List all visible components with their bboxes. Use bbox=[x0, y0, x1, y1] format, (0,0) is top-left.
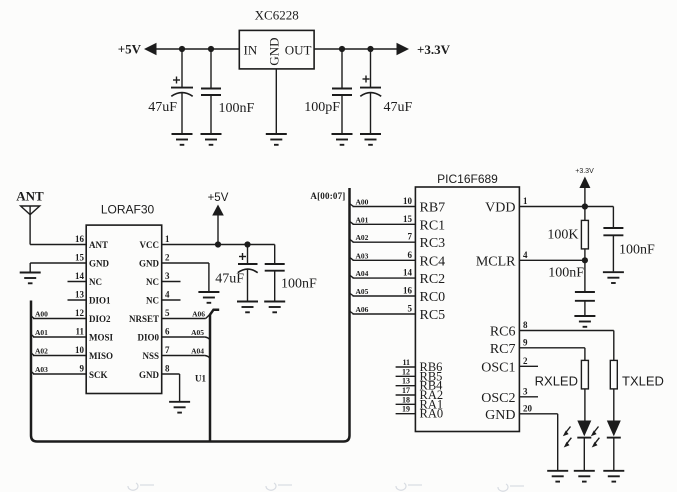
ground under C2 bbox=[201, 134, 222, 145]
net +3.3V arrow at PIC bbox=[579, 177, 590, 189]
svg-text:RXLED: RXLED bbox=[535, 374, 578, 389]
svg-text:7: 7 bbox=[165, 345, 170, 355]
svg-text:15: 15 bbox=[403, 214, 413, 224]
svg-text:RC7: RC7 bbox=[490, 342, 516, 357]
U3 pin 20 GND wire bbox=[485, 403, 558, 470]
U1 pin 11 MOSI / node A01 bbox=[31, 327, 114, 343]
svg-text:NC: NC bbox=[89, 277, 102, 287]
svg-text:47uF: 47uF bbox=[148, 100, 177, 115]
U3 pin 12 RB5 bbox=[396, 367, 443, 383]
U1 pin 14 NC bbox=[68, 271, 103, 287]
ground under U2 bbox=[266, 134, 287, 145]
U3 pin 1 VDD / wire to +3.3V bbox=[485, 196, 613, 216]
capacitor C3 100pF bbox=[304, 49, 352, 134]
svg-text:100nF: 100nF bbox=[281, 277, 317, 292]
svg-text:13: 13 bbox=[402, 377, 410, 386]
svg-text:RB7: RB7 bbox=[420, 201, 446, 216]
U1 pin 13 DIO1 bbox=[68, 290, 112, 306]
capacitor C2 100nF bbox=[201, 49, 255, 134]
U3 pin 10 RB7 / node A00 bbox=[350, 196, 446, 216]
svg-text:16: 16 bbox=[75, 234, 85, 244]
U1 pin 16 ANT bbox=[75, 234, 108, 250]
svg-text:100K: 100K bbox=[547, 228, 578, 243]
wire antenna to U1 pin 16 bbox=[30, 244, 86, 246]
svg-text:13: 13 bbox=[75, 290, 85, 300]
svg-text:18: 18 bbox=[402, 395, 410, 404]
ground under D1 bbox=[574, 471, 595, 482]
svg-text:2: 2 bbox=[523, 356, 528, 366]
U3 pin 19 RA0 bbox=[396, 405, 444, 421]
U3 pin 16 RC0 / node A05 bbox=[350, 286, 446, 306]
svg-text:IN: IN bbox=[244, 43, 258, 58]
capacitor C8 100nF on VDD bbox=[603, 207, 655, 272]
svg-text:A[00:07]: A[00:07] bbox=[310, 191, 345, 201]
svg-text:MOSI: MOSI bbox=[89, 333, 114, 343]
svg-text:NC: NC bbox=[146, 296, 159, 306]
wire +5V rail to IN bbox=[155, 48, 239, 50]
svg-text:A04: A04 bbox=[191, 347, 204, 356]
svg-text:XC6228: XC6228 bbox=[255, 8, 299, 23]
junction dot at C3 tap bbox=[339, 46, 345, 52]
svg-text:A03: A03 bbox=[356, 251, 369, 260]
U1 pin 7 NSS / node A04 bbox=[142, 345, 210, 361]
faint watermark remnants bbox=[128, 483, 524, 491]
wire +3.3V arrow stem bbox=[584, 188, 586, 207]
U3 pin 3 OSC2 stub bbox=[481, 386, 538, 406]
net +5V arrow above U1 bbox=[212, 205, 224, 216]
svg-text:19: 19 bbox=[402, 405, 410, 414]
wire U2 GND pin to ground bbox=[275, 69, 277, 134]
svg-text:A03: A03 bbox=[35, 365, 48, 374]
svg-text:MISO: MISO bbox=[89, 351, 113, 361]
U1 pin 2 GND bbox=[139, 253, 209, 292]
U3 pin 5 RC5 / node A06 bbox=[350, 304, 446, 324]
capacitor C5 47uF electrolytic bbox=[215, 245, 257, 301]
svg-text:RC2: RC2 bbox=[420, 272, 446, 287]
svg-text:15: 15 bbox=[75, 253, 85, 263]
U3 pin 7 RC3 / node A02 bbox=[350, 232, 446, 252]
svg-text:12: 12 bbox=[75, 308, 85, 318]
svg-text:RC4: RC4 bbox=[420, 254, 446, 269]
U1 pin 5 NRSET / node A06 bbox=[129, 308, 210, 324]
ground at U1 pin 15 bbox=[20, 273, 41, 284]
svg-text:9: 9 bbox=[523, 337, 528, 347]
svg-text:GND: GND bbox=[139, 370, 160, 380]
resistor R1 100K bbox=[547, 207, 588, 261]
svg-text:U1: U1 bbox=[195, 374, 206, 384]
ground under C7 bbox=[574, 316, 595, 327]
svg-text:47uF: 47uF bbox=[215, 272, 244, 287]
net +3.3V arrow bbox=[397, 43, 410, 55]
svg-text:ANT: ANT bbox=[16, 189, 44, 204]
svg-text:4: 4 bbox=[165, 290, 170, 300]
svg-text:+3.3V: +3.3V bbox=[417, 42, 451, 57]
wire +5V arrow stem bbox=[217, 216, 219, 245]
svg-text:47uF: 47uF bbox=[384, 100, 413, 115]
svg-text:100nF: 100nF bbox=[619, 243, 655, 258]
U1 pin 9 SCK / node A03 bbox=[31, 364, 108, 381]
U1 pin 1 VCC wire to +5V rail bbox=[140, 234, 275, 250]
capacitor C1 47uF electrolytic bbox=[148, 49, 193, 134]
U3 pin 17 RA2 bbox=[396, 386, 444, 402]
svg-text:100pF: 100pF bbox=[304, 100, 340, 115]
U1 pin 10 MISO / node A02 bbox=[31, 345, 113, 361]
junction dot MCLR node bbox=[582, 257, 588, 263]
svg-text:5: 5 bbox=[408, 304, 413, 314]
svg-text:OSC1: OSC1 bbox=[481, 360, 515, 375]
svg-text:GND: GND bbox=[267, 37, 282, 65]
U1 pin 15 GND bbox=[30, 253, 109, 272]
svg-text:7: 7 bbox=[408, 232, 413, 242]
U3 pin 15 RC1 / node A01 bbox=[350, 214, 446, 234]
ground under C4 bbox=[360, 134, 381, 145]
svg-text:VDD: VDD bbox=[485, 201, 515, 216]
U3 pin 6 RC4 / node A03 bbox=[350, 250, 446, 270]
svg-text:A02: A02 bbox=[356, 233, 369, 242]
svg-text:RC0: RC0 bbox=[420, 290, 446, 305]
U3 pin 8 RC6 wire bbox=[490, 320, 614, 340]
U1 pin 3 NC bbox=[146, 271, 181, 287]
svg-text:6: 6 bbox=[408, 250, 413, 260]
svg-text:11: 11 bbox=[402, 358, 410, 367]
ground at U3 pin 20 bbox=[547, 471, 568, 482]
svg-text:1: 1 bbox=[523, 196, 528, 206]
svg-text:RC6: RC6 bbox=[490, 325, 516, 340]
svg-text:ANT: ANT bbox=[89, 240, 108, 250]
ground under C1 bbox=[172, 134, 193, 145]
svg-text:RA0: RA0 bbox=[420, 407, 444, 421]
svg-text:14: 14 bbox=[403, 268, 413, 278]
net +5V arrow bbox=[144, 43, 157, 55]
svg-text:LORAF30: LORAF30 bbox=[101, 203, 155, 217]
wire OUT rail bbox=[314, 48, 398, 50]
svg-text:11: 11 bbox=[75, 327, 84, 337]
svg-text:14: 14 bbox=[75, 271, 85, 281]
svg-text:DIO0: DIO0 bbox=[137, 333, 159, 343]
U3 pin 4 MCLR wire bbox=[476, 250, 585, 270]
svg-text:NSS: NSS bbox=[142, 351, 159, 361]
capacitor C6 100nF bbox=[265, 245, 317, 301]
svg-text:1: 1 bbox=[165, 234, 170, 244]
IC U1 LORAF30 box bbox=[86, 225, 162, 393]
junction dot at C4 tap bbox=[367, 46, 373, 52]
svg-text:A05: A05 bbox=[191, 328, 204, 337]
svg-text:3: 3 bbox=[165, 271, 170, 281]
svg-text:17: 17 bbox=[402, 386, 410, 395]
svg-text:9: 9 bbox=[80, 364, 85, 374]
svg-text:2: 2 bbox=[165, 253, 170, 263]
regulator U2 XC6228 bbox=[239, 8, 314, 69]
ground under D2 bbox=[603, 471, 624, 482]
svg-text:SCK: SCK bbox=[89, 370, 108, 380]
ground under C5 bbox=[237, 302, 258, 313]
svg-text:8: 8 bbox=[523, 320, 528, 330]
svg-text:10: 10 bbox=[403, 196, 413, 206]
U3 pin 11 RB6 bbox=[396, 358, 443, 374]
svg-text:A06: A06 bbox=[192, 310, 205, 319]
svg-text:A02: A02 bbox=[35, 347, 48, 356]
svg-text:16: 16 bbox=[403, 286, 413, 296]
svg-text:A00: A00 bbox=[356, 198, 369, 207]
ground at U1 pin 2 bbox=[198, 292, 219, 303]
svg-text:A00: A00 bbox=[35, 310, 48, 319]
junction dot VDD node bbox=[582, 203, 588, 209]
svg-text:TXLED: TXLED bbox=[622, 374, 664, 389]
svg-text:A06: A06 bbox=[356, 305, 369, 314]
svg-text:MCLR: MCLR bbox=[476, 254, 516, 269]
U1 pin 6 DIO0 / node A05 bbox=[137, 327, 210, 343]
svg-text:OUT: OUT bbox=[285, 43, 312, 58]
U3 pin 14 RC2 / node A04 bbox=[350, 268, 446, 288]
bus A[00:07] left loop bbox=[31, 188, 350, 442]
resistor R3 TXLED bbox=[610, 331, 664, 421]
svg-text:4: 4 bbox=[523, 250, 528, 260]
svg-text:A01: A01 bbox=[35, 328, 48, 337]
svg-text:+3.3V: +3.3V bbox=[575, 168, 594, 175]
svg-text:GND: GND bbox=[485, 408, 515, 423]
svg-text:VCC: VCC bbox=[140, 240, 160, 250]
svg-text:+5V: +5V bbox=[118, 42, 142, 57]
svg-text:DIO2: DIO2 bbox=[89, 314, 111, 324]
svg-text:100nF: 100nF bbox=[548, 266, 584, 281]
svg-text:OSC2: OSC2 bbox=[481, 391, 515, 406]
antenna symbol bbox=[21, 206, 40, 245]
svg-text:5: 5 bbox=[165, 308, 170, 318]
ground under C3 bbox=[332, 134, 353, 145]
U1 pin 8 GND bbox=[139, 364, 206, 402]
svg-text:DIO1: DIO1 bbox=[89, 296, 111, 306]
svg-text:20: 20 bbox=[523, 403, 533, 413]
svg-text:A01: A01 bbox=[356, 215, 369, 224]
U3 pin 9 RC7 wire bbox=[490, 337, 585, 357]
svg-text:PIC16F689: PIC16F689 bbox=[437, 172, 498, 186]
junction dot at C1 tap bbox=[179, 46, 185, 52]
LED D2 bbox=[591, 421, 621, 471]
junction dot VCC rail bbox=[215, 241, 221, 247]
svg-text:12: 12 bbox=[402, 367, 410, 376]
ground under C8 bbox=[603, 272, 624, 283]
U1 pin 12 DIO2 / node A00 bbox=[31, 308, 111, 324]
svg-text:100nF: 100nF bbox=[219, 101, 255, 116]
capacitor C7 100nF on MCLR bbox=[548, 260, 595, 315]
junction dot C5 tap bbox=[244, 241, 250, 247]
ground under C6 bbox=[264, 302, 285, 313]
svg-text:RC1: RC1 bbox=[420, 218, 446, 233]
svg-text:RC5: RC5 bbox=[420, 308, 446, 323]
U3 pin 18 RA1 bbox=[396, 395, 444, 411]
junction dot at C2 tap bbox=[208, 46, 214, 52]
svg-text:8: 8 bbox=[165, 364, 170, 374]
capacitor C4 47uF electrolytic bbox=[360, 49, 413, 134]
svg-text:GND: GND bbox=[89, 259, 110, 269]
svg-text:6: 6 bbox=[165, 327, 170, 337]
svg-text:3: 3 bbox=[523, 386, 528, 396]
LED D1 bbox=[563, 421, 592, 471]
svg-text:NRSET: NRSET bbox=[129, 314, 159, 324]
svg-text:NC: NC bbox=[146, 277, 159, 287]
U1 pin 4 NC bbox=[146, 290, 181, 306]
ground at U1 pin 8 bbox=[169, 402, 190, 413]
svg-text:RC3: RC3 bbox=[420, 236, 446, 251]
svg-text:10: 10 bbox=[75, 345, 85, 355]
svg-text:+5V: +5V bbox=[208, 192, 229, 204]
U3 pin 2 OSC1 stub bbox=[481, 356, 538, 376]
IC U3 PIC16F689 box bbox=[415, 187, 519, 432]
svg-text:A04: A04 bbox=[356, 269, 369, 278]
svg-text:A05: A05 bbox=[356, 287, 369, 296]
U3 pin 13 RB4 bbox=[396, 377, 444, 393]
svg-text:GND: GND bbox=[139, 259, 160, 269]
bus middle branch bbox=[210, 310, 219, 442]
resistor R2 RXLED bbox=[535, 348, 589, 421]
